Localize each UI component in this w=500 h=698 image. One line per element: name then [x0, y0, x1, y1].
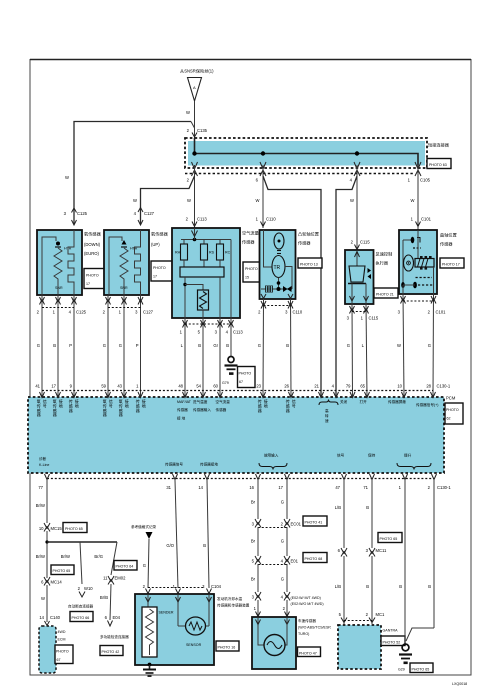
svg-text:Br/W: Br/W [36, 554, 45, 559]
wires ECM 31/14 to coolant temp unit [148, 480, 222, 594]
svg-text:48: 48 [178, 384, 183, 389]
svg-text:67: 67 [57, 658, 61, 662]
svg-text:接地: 接地 [142, 398, 146, 408]
svg-text:(E02:W/ M/T 4WD): (E02:W/ M/T 4WD) [291, 596, 321, 600]
svg-text:W: W [41, 596, 45, 601]
svg-text:PCM: PCM [446, 396, 456, 401]
svg-text:进气温度: 进气温度 [193, 399, 208, 404]
svg-text:MC15: MC15 [51, 526, 63, 531]
svg-text:关闭: 关闭 [340, 399, 348, 404]
brace 提升 (ECM bottom, pins 1/2) [397, 463, 431, 470]
svg-text:G: G [428, 343, 431, 348]
svg-text:G: G [281, 500, 284, 505]
ground (coolant sender) [143, 665, 156, 676]
svg-text:短接连接器: 短接连接器 [428, 142, 450, 149]
svg-text:60: 60 [213, 384, 218, 389]
svg-text:RS: RS [209, 251, 215, 255]
PHOTO 65 box (MC11) [378, 533, 402, 543]
svg-text:C113: C113 [233, 330, 243, 335]
vehicle speed sensor chain [251, 480, 324, 617]
PHOTO 65 box (G29) [410, 663, 433, 673]
svg-text:传感器屏蔽: 传感器屏蔽 [388, 399, 406, 404]
svg-text:氧传感器: 氧传感器 [119, 398, 123, 417]
brace 高转速 (ECM top, pins 21/4) [319, 400, 338, 424]
svg-text:EC01: EC01 [291, 522, 302, 527]
svg-text:C125: C125 [77, 211, 88, 216]
svg-text:79: 79 [346, 384, 351, 389]
svg-text:(E02:W/O M/T 4WD): (E02:W/O M/T 4WD) [291, 602, 324, 606]
svg-text:速: 速 [325, 418, 329, 423]
svg-text:65: 65 [360, 384, 365, 389]
ground G29 [398, 644, 412, 671]
svg-text:PHOTO 52: PHOTO 52 [383, 641, 401, 645]
PHOTO 65 box (MC14) [51, 565, 74, 575]
junction + branch wires [36, 531, 117, 584]
ECM bottom pin numbers [38, 485, 451, 490]
svg-text:PHOTO 66: PHOTO 66 [72, 616, 90, 620]
svg-text:26: 26 [284, 384, 289, 389]
svg-text:传感器: 传感器 [286, 398, 290, 413]
svg-text:凸轮轴位置: 凸轮轴位置 [298, 231, 319, 238]
svg-text:C113: C113 [197, 217, 207, 222]
svg-text:G: G [143, 563, 146, 568]
svg-text:Br: Br [251, 500, 256, 505]
svg-text:PHOTO 65: PHOTO 65 [412, 668, 430, 672]
cam bottom pins [258, 299, 303, 397]
svg-text:67: 67 [239, 380, 243, 384]
svg-text:Br/W: Br/W [36, 503, 45, 508]
svg-text:62: 62 [447, 417, 451, 421]
svg-text:信号: 信号 [337, 453, 345, 458]
svg-text:17: 17 [153, 275, 157, 279]
svg-text:C101: C101 [421, 217, 432, 222]
wires ECM 47/71 to cluster [335, 480, 387, 624]
PHOTO 67 box (DLC) [55, 645, 73, 664]
svg-text:L/B: L/B [335, 505, 341, 510]
svg-text:多功能检查连接器: 多功能检查连接器 [100, 634, 129, 639]
svg-text:14: 14 [198, 485, 203, 490]
wire from triangle to jumper connector [186, 101, 208, 138]
svg-text:故障输入: 故障输入 [264, 453, 279, 458]
PHOTO 13 box (cam) [298, 258, 322, 268]
svg-text:E04: E04 [113, 615, 121, 620]
svg-text:高: 高 [325, 408, 329, 413]
svg-text:P: P [69, 343, 72, 348]
svg-text:自动断查连接器: 自动断查连接器 [68, 604, 94, 609]
svg-text:PHOTO 47: PHOTO 47 [299, 652, 317, 656]
svg-text:B: B [428, 584, 431, 589]
svg-text:C110: C110 [293, 310, 303, 315]
svg-text:Br/G: Br/G [94, 554, 103, 559]
ECM internal labels (top edge) [37, 398, 439, 421]
svg-text:传感器: 传感器 [136, 398, 140, 413]
svg-text:PHOTO 16: PHOTO 16 [218, 646, 236, 650]
svg-text:转: 转 [325, 413, 329, 418]
svg-text:Br/B: Br/B [100, 595, 108, 600]
svg-text:A: A [193, 85, 196, 90]
svg-text:B: B [366, 584, 369, 589]
PHOTO 15 box (air flow) [243, 262, 265, 282]
svg-text:PHOTO 21: PHOTO 21 [376, 293, 394, 297]
svg-text:W: W [350, 198, 354, 203]
svg-text:C127: C127 [144, 211, 155, 216]
svg-text:59: 59 [101, 384, 106, 389]
svg-text:C101: C101 [436, 310, 447, 315]
svg-text:C110: C110 [266, 217, 276, 222]
svg-text:PHOTO 41: PHOTO 41 [305, 521, 323, 525]
PHOTO 21 box (idle) [374, 288, 398, 298]
jumper exits: arrows [187, 162, 431, 183]
ECM internal labels (bottom edge) [39, 453, 412, 468]
svg-text:E01: E01 [291, 559, 299, 564]
svg-text:W: W [186, 110, 190, 115]
svg-text:C140: C140 [50, 615, 61, 620]
svg-text:TR: TR [274, 265, 281, 271]
crank bottom pins [397, 294, 446, 397]
svg-text:G: G [37, 343, 40, 348]
svg-text:传感器: 传感器 [177, 407, 188, 412]
svg-text:23: 23 [256, 384, 261, 389]
svg-text:17: 17 [278, 485, 283, 490]
ground G79 (air flow) [222, 357, 238, 386]
svg-text:16: 16 [249, 485, 254, 490]
svg-text:PHOTO: PHOTO [239, 372, 252, 376]
svg-text:传感器和传感器装置: 传感器和传感器装置 [217, 603, 250, 608]
svg-text:传感器信号(+): 传感器信号(+) [416, 402, 438, 407]
svg-text:L/B: L/B [335, 584, 341, 589]
svg-text:C130-1: C130-1 [437, 384, 451, 389]
svg-text:MC11: MC11 [376, 548, 388, 553]
PHOTO 64 box (EM02) [114, 561, 137, 571]
wires ECM 1/2 to ground G29 [399, 480, 434, 643]
svg-text:Br: Br [251, 577, 256, 582]
svg-text:发动机冷却水温: 发动机冷却水温 [217, 596, 243, 601]
data link connector (dashed box) [39, 626, 56, 673]
svg-text:LXQ0018: LXQ0018 [452, 682, 467, 686]
svg-text:执行器: 执行器 [376, 260, 389, 267]
svg-text:C105: C105 [420, 178, 431, 183]
svg-text:PHOTO: PHOTO [446, 408, 459, 412]
svg-text:B: B [286, 343, 289, 348]
PHOTO 67 box (G79) [238, 367, 256, 388]
svg-text:MC1: MC1 [376, 612, 386, 617]
svg-text:31: 31 [166, 485, 171, 490]
svg-text:打开: 打开 [360, 399, 368, 404]
O2 sensor (DOWN) box [37, 230, 102, 295]
wire: jumper to air flow sensor [186, 176, 208, 228]
svg-text:SNR: SNR [120, 286, 128, 290]
cluster (dashed box) [338, 625, 381, 669]
svg-text:47: 47 [335, 485, 340, 490]
svg-text:G: G [103, 343, 106, 348]
PHOTO 16 box (coolant) [216, 641, 239, 651]
svg-text:10: 10 [39, 526, 44, 531]
multi check connector branch [100, 576, 129, 640]
svg-text:W: W [411, 198, 415, 203]
svg-text:(W/O ABS/TCS/ESP,: (W/O ABS/TCS/ESP, [298, 626, 331, 630]
svg-text:(EURO): (EURO) [84, 251, 99, 256]
svg-text:B: B [198, 343, 201, 348]
brace 故障输入 (ECM bottom, speed sensor pins) [259, 463, 287, 470]
wire branch to O2 sensor (DOWN) heater [64, 122, 195, 226]
svg-text:氧传感器: 氧传感器 [53, 398, 57, 417]
jumper (short) connector bar [185, 138, 450, 168]
svg-text:W: W [397, 343, 401, 348]
svg-text:G/O: G/O [166, 543, 174, 548]
svg-text:传感器: 传感器 [69, 398, 73, 413]
svg-text:PHOTO 68: PHOTO 68 [305, 557, 323, 561]
svg-text:C115: C115 [369, 316, 379, 321]
K-line wire from pin 77 [36, 480, 63, 532]
svg-text:信号: 信号 [43, 398, 47, 408]
PHOTO 63 label box [427, 159, 451, 169]
air flow sensor box [172, 228, 259, 318]
svg-text:PHOTO 65: PHOTO 65 [380, 537, 398, 541]
A/T check connector branch [68, 586, 94, 609]
svg-text:11: 11 [103, 576, 108, 581]
MC14 connector [39, 577, 62, 626]
svg-text:77: 77 [38, 485, 43, 490]
page connector triangle A (from SNSR fuse) [180, 68, 214, 102]
svg-text:(DOWN): (DOWN) [84, 242, 101, 247]
svg-text:PHOTO 65: PHOTO 65 [53, 569, 71, 573]
svg-text:空气流量: 空气流量 [216, 399, 231, 404]
svg-text:G: G [119, 343, 122, 348]
svg-text:氧传感器: 氧传感器 [84, 231, 102, 238]
svg-text:氧传感器: 氧传感器 [151, 231, 169, 238]
svg-text:接地: 接地 [75, 398, 79, 408]
camshaft position sensor box [260, 230, 319, 299]
O2 UP bottom pins [103, 295, 154, 397]
svg-text:43: 43 [117, 384, 122, 389]
wire branch: cam exit to ECM pin 21 [263, 176, 321, 397]
wire branch: idle exit to ECM pin 4 [336, 176, 357, 397]
svg-text:G: G [281, 539, 284, 544]
svg-text:54: 54 [196, 384, 201, 389]
wire: jumper to crank sensor [411, 176, 432, 230]
svg-text:PHOTO: PHOTO [153, 266, 166, 270]
svg-text:PHOTO 42: PHOTO 42 [102, 650, 120, 654]
svg-text:W: W [256, 198, 260, 203]
svg-text:10: 10 [397, 384, 402, 389]
svg-text:PHOTO: PHOTO [245, 267, 258, 271]
svg-text:RH: RH [175, 251, 181, 255]
ECM top pin numbers [35, 384, 451, 389]
PHOTO 62 box (PCM) [445, 403, 463, 424]
svg-text:C104: C104 [211, 584, 222, 589]
engine coolant temp sender & sensor box [135, 594, 250, 666]
svg-text:PHOTO 13: PHOTO 13 [300, 263, 318, 267]
PHOTO 17 box (O2 UP) [151, 261, 174, 281]
svg-text:GANTRA: GANTRA [383, 629, 399, 633]
svg-text:保持: 保持 [368, 453, 376, 458]
svg-text:接地: 接地 [264, 398, 268, 408]
svg-text:传感器: 传感器 [298, 240, 311, 247]
PHOTO 66 box [70, 612, 93, 622]
svg-text:TURO): TURO) [298, 632, 309, 636]
svg-text:G: G [281, 577, 284, 582]
svg-text:B: B [226, 343, 229, 348]
svg-text:传感器输入: 传感器输入 [193, 407, 211, 412]
svg-text:SENSOR: SENSOR [186, 643, 202, 647]
svg-text:17: 17 [51, 384, 56, 389]
svg-text:传感器: 传感器 [440, 241, 453, 248]
svg-text:W: W [133, 198, 137, 203]
svg-text:氧传感器: 氧传感器 [103, 398, 107, 417]
PHOTO 41 box (EC01) [303, 516, 327, 526]
svg-text:MC14: MC14 [51, 580, 63, 585]
svg-text:EM02: EM02 [115, 576, 127, 581]
wire: jumper to idle actuator [350, 176, 370, 250]
PHOTO 68 box (E01) [303, 553, 327, 563]
svg-text:信号: 信号 [292, 398, 296, 408]
svg-text:RC: RC [225, 251, 231, 255]
svg-text:B: B [366, 505, 369, 510]
idle speed control actuator box [345, 250, 392, 304]
svg-text:传感器: 传感器 [242, 239, 255, 246]
wire: jumper to camshaft sensor [256, 176, 277, 228]
svg-text:W10: W10 [84, 586, 93, 591]
svg-text:W: W [187, 198, 191, 203]
svg-text:G29: G29 [398, 668, 405, 672]
shield dashed line under jumper bar [185, 173, 414, 175]
svg-text:传感器: 传感器 [258, 398, 262, 413]
svg-text:71: 71 [363, 485, 368, 490]
svg-text:SENDER: SENDER [159, 611, 174, 615]
PHOTO 42 box [100, 646, 123, 656]
crankshaft position sensor box [399, 230, 457, 294]
svg-text:4WD: 4WD [58, 630, 66, 634]
svg-text:诊断: 诊断 [39, 456, 47, 461]
PHOTO 17 box (crank) [440, 258, 464, 268]
svg-text:车速传感器: 车速传感器 [298, 618, 316, 623]
svg-text:C135: C135 [197, 128, 208, 133]
svg-text:空气流量: 空气流量 [242, 230, 259, 237]
vehicle speed sensor box [252, 617, 331, 669]
svg-text:B: B [53, 343, 56, 348]
svg-text:PHOTO: PHOTO [56, 650, 69, 654]
frame border [30, 60, 471, 676]
PHOTO 52 box (cluster) [381, 636, 405, 646]
svg-text:ECM: ECM [58, 638, 66, 642]
svg-text:PHOTO 17: PHOTO 17 [442, 263, 460, 267]
svg-text:怠速控制: 怠速控制 [376, 251, 393, 258]
svg-text:B: B [203, 543, 206, 548]
ECM top pin chevrons [40, 392, 436, 398]
svg-text:41: 41 [35, 384, 40, 389]
svg-text:PHOTO 63: PHOTO 63 [429, 163, 447, 167]
reference marker (solid triangle) [131, 524, 157, 594]
svg-text:K-Line: K-Line [39, 463, 49, 467]
svg-text:17: 17 [86, 282, 90, 286]
svg-text:SNR: SNR [55, 286, 63, 290]
svg-text:MAF/IAT: MAF/IAT [177, 400, 192, 404]
svg-text:G: G [347, 343, 350, 348]
svg-text:(UP): (UP) [151, 242, 160, 247]
PHOTO 65 box (MC15) [63, 523, 87, 533]
svg-text:C130-1: C130-1 [437, 485, 451, 490]
svg-text:W: W [65, 175, 69, 180]
svg-text:氧传感器: 氧传感器 [37, 398, 41, 417]
O2 DOWN bottom pins [37, 295, 87, 397]
idle bottom pins [347, 304, 379, 397]
svg-text:接地: 接地 [59, 398, 63, 408]
PHOTO 17 box (O2 DOWN) [84, 269, 107, 289]
svg-text:传感器接地: 传感器接地 [200, 462, 218, 467]
svg-text:21: 21 [314, 384, 319, 389]
svg-text:C127: C127 [143, 310, 154, 315]
svg-text:PHOTO 64: PHOTO 64 [116, 565, 134, 569]
svg-text:PHOTO: PHOTO [86, 274, 99, 278]
svg-text:15: 15 [245, 276, 249, 280]
svg-text:G: G [258, 343, 261, 348]
svg-text:接地: 接地 [125, 398, 129, 408]
air flow bottom pins [180, 318, 244, 397]
svg-text:PHOTO 65: PHOTO 65 [65, 527, 83, 531]
svg-text:Br/W: Br/W [61, 554, 70, 559]
svg-text:B: B [399, 584, 402, 589]
svg-text:提升: 提升 [404, 453, 412, 458]
svg-text:Gr: Gr [213, 343, 218, 348]
svg-text:C125: C125 [76, 310, 87, 315]
svg-text:Br: Br [251, 539, 256, 544]
ECM bottom pin chevrons [45, 474, 437, 480]
svg-text:14: 14 [39, 615, 44, 620]
wire branch: jumper exit 1 to O2 (UP) heater [133, 176, 194, 225]
svg-text:传感器: 传感器 [216, 407, 227, 412]
svg-text:28: 28 [426, 384, 431, 389]
svg-text:曲轴位置: 曲轴位置 [440, 232, 457, 239]
svg-text:C115: C115 [360, 240, 370, 245]
svg-text:G79: G79 [222, 381, 229, 385]
O2 sensor (UP) box [104, 230, 169, 295]
svg-text:从SNSR保险丝(1): 从SNSR保险丝(1) [180, 68, 214, 75]
PHOTO 47 box (speed) [298, 647, 321, 657]
svg-text:信号: 信号 [109, 398, 113, 408]
svg-text:参考值格式记录: 参考值格式记录 [131, 524, 157, 529]
svg-text:接 地: 接 地 [177, 416, 186, 421]
svg-text:P: P [136, 343, 139, 348]
svg-text:传感器信号: 传感器信号 [165, 462, 183, 467]
